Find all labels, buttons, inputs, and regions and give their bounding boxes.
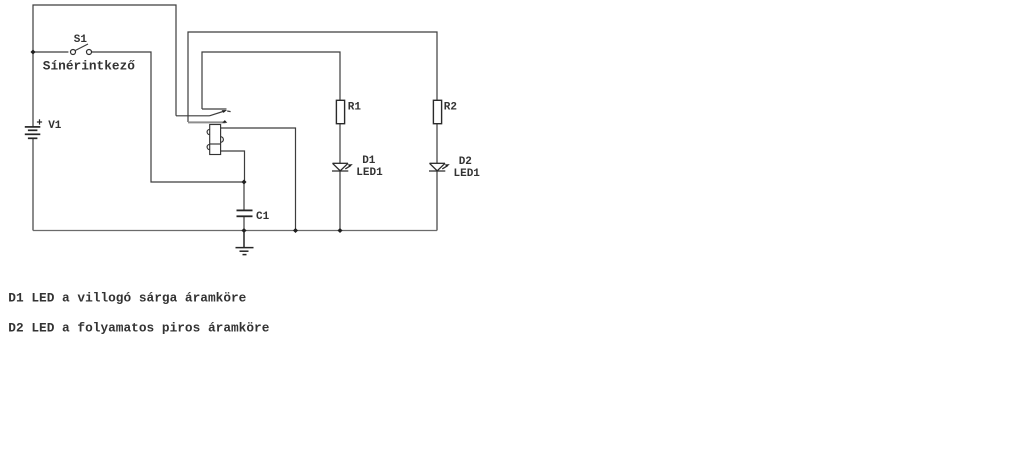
svg-text:LED1: LED1 xyxy=(454,168,481,180)
svg-text:V1: V1 xyxy=(48,120,62,132)
svg-text:S1: S1 xyxy=(74,34,88,46)
svg-text:D1 LED a villogó sárga áramkör: D1 LED a villogó sárga áramköre xyxy=(8,290,246,305)
svg-text:D2: D2 xyxy=(459,156,472,168)
svg-text:R1: R1 xyxy=(348,101,362,113)
svg-text:Sínérintkező: Sínérintkező xyxy=(43,59,135,74)
svg-text:C1: C1 xyxy=(256,211,270,223)
svg-text:D2 LED a folyamatos piros áram: D2 LED a folyamatos piros áramköre xyxy=(8,320,269,335)
svg-text:D1: D1 xyxy=(362,155,376,167)
svg-text:LED1: LED1 xyxy=(356,167,383,179)
svg-text:R2: R2 xyxy=(444,101,457,113)
